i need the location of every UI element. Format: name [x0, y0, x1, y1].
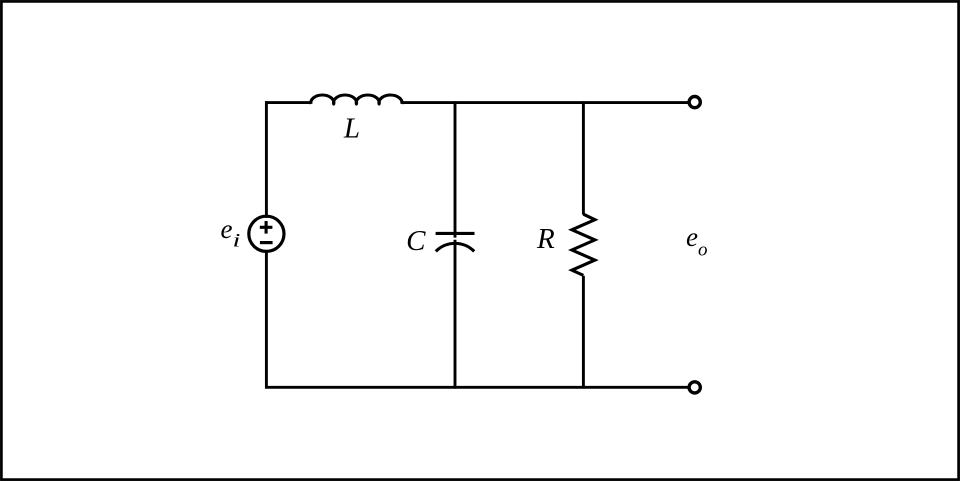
voltage source minus sign	[260, 241, 273, 244]
svg-text:R: R	[536, 223, 555, 255]
voltage source plus sign	[260, 221, 273, 234]
svg-text:i: i	[233, 230, 241, 251]
svg-text:L: L	[343, 113, 360, 145]
wire: resistor top lead	[582, 101, 585, 214]
wire: resistor bottom lead	[582, 276, 585, 389]
terminal: top output (open circle)	[689, 97, 700, 108]
wire: capacitor bottom lead	[454, 240, 457, 389]
inductor L	[311, 95, 402, 104]
svg-text:e: e	[221, 214, 233, 244]
capacitor C curved bottom plate	[436, 243, 474, 251]
svg-text:C: C	[406, 225, 426, 257]
resistor R zigzag	[572, 214, 595, 275]
wire: top-left horizontal (source top to inductor)	[265, 101, 311, 104]
wire: top horizontal (inductor to top output terminal)	[402, 101, 688, 104]
wire: left vertical upper (top wire down to source)	[265, 101, 268, 218]
capacitor C top plate	[436, 232, 475, 235]
terminal: bottom output (open circle)	[689, 382, 700, 393]
svg-text:o: o	[698, 240, 708, 261]
wire: capacitor top lead	[454, 101, 457, 237]
svg-text:e: e	[686, 222, 698, 252]
wire: left vertical lower (source down to bottom wire)	[265, 250, 268, 389]
wire: bottom horizontal (source bottom to bottom output terminal)	[265, 386, 688, 389]
voltage source e_i (circle)	[249, 216, 284, 251]
